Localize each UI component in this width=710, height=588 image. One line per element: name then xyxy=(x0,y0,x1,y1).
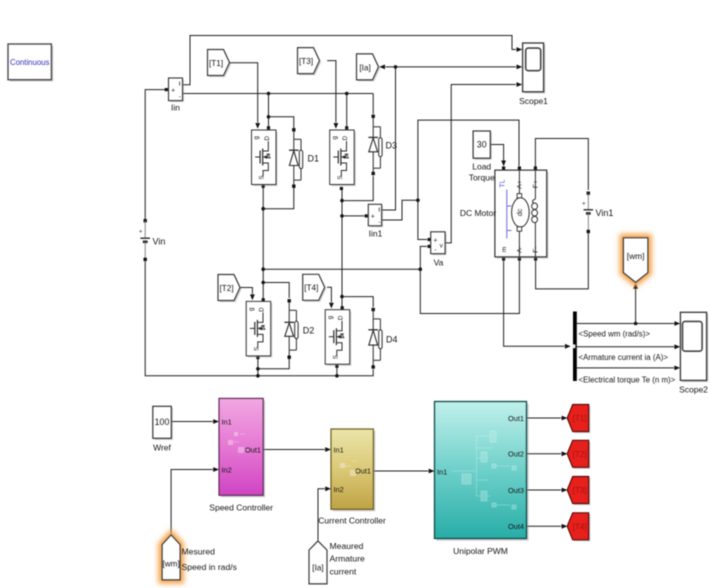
powergui block Continuous xyxy=(8,44,53,82)
svg-text:dc: dc xyxy=(515,208,524,216)
wire: [T2] to Q3 gate xyxy=(241,288,255,301)
svg-text:[wm]: [wm] xyxy=(162,559,179,568)
DC source battery Vin xyxy=(139,219,166,261)
svg-text:g: g xyxy=(331,136,338,140)
svg-text:m: m xyxy=(501,246,508,252)
red goto tag [T1] xyxy=(567,405,590,434)
svg-text:In1: In1 xyxy=(222,418,232,427)
svg-text:<Speed wm (rad/s)>: <Speed wm (rad/s)> xyxy=(579,330,651,339)
svg-text:Armature: Armature xyxy=(330,554,366,564)
subsystem Current Controller xyxy=(318,429,386,526)
svg-text:D1: D1 xyxy=(308,154,320,164)
svg-text:Scope2: Scope2 xyxy=(679,385,708,395)
red goto tag [T3] xyxy=(567,477,590,506)
svg-text:Va: Va xyxy=(434,258,444,268)
goto tag [Ia] (mirrored, receives armature current) xyxy=(357,54,381,82)
svg-text:[T3]: [T3] xyxy=(573,486,587,495)
subsystem Speed Controller xyxy=(209,398,273,512)
MOSFET Q3 xyxy=(246,301,272,357)
svg-text:A+: A+ xyxy=(517,180,524,189)
svg-text:TL: TL xyxy=(500,179,507,187)
svg-text:In2: In2 xyxy=(334,485,344,494)
current measurement Iin1 xyxy=(368,204,383,238)
from tag [Ia] (measured armature current) xyxy=(309,541,327,584)
wire: bus output 3 (torque) to Scope2 xyxy=(577,366,680,371)
svg-text:[T1]: [T1] xyxy=(573,414,587,423)
constant block 30 (load torque) xyxy=(469,131,495,183)
svg-text:In1: In1 xyxy=(437,468,447,477)
wire: Speed Controller Out1 to Current Controller In1 xyxy=(263,447,331,452)
svg-text:100: 100 xyxy=(155,417,170,427)
svg-text:D: D xyxy=(338,315,345,320)
wire: bottom return rail from Vin- to D4 bottom xyxy=(145,261,373,377)
voltage measurement Va xyxy=(431,232,447,268)
wire: lower-left leg join (Q3 source, D2 bottom) xyxy=(256,356,289,376)
from tag [wm] with highlight glow (measured speed) xyxy=(162,535,180,580)
wire: top DC rail from Iin output to Q1/Q2 drains and D1/D3 xyxy=(183,92,373,130)
wire: [T1] to Q1 gate xyxy=(230,63,261,129)
goto tag [wm] rotated down with highlight glow xyxy=(623,238,648,283)
annotation: Meaured Armature current xyxy=(330,541,366,577)
svg-text:current: current xyxy=(330,567,357,577)
diode D4 xyxy=(368,308,397,369)
svg-text:+: + xyxy=(433,238,437,245)
svg-text:D2: D2 xyxy=(303,326,315,336)
annotation: Mesured Speed in rad/s xyxy=(182,547,237,573)
svg-text:-: - xyxy=(378,219,380,226)
wire: [T3] to Q2 gate xyxy=(327,61,338,129)
wire: motor m output down to Bus Selector input xyxy=(502,257,571,348)
svg-text:[T1]: [T1] xyxy=(209,59,223,68)
svg-text:D: D xyxy=(264,135,271,140)
wire: PWM Out3 to red [T3] goto xyxy=(527,488,568,493)
diode D1 xyxy=(289,128,319,188)
DC Motor internals: TL physical port (blue) xyxy=(500,179,512,238)
wire: Load Torque constant to TL input xyxy=(490,145,506,170)
svg-text:S: S xyxy=(337,175,344,179)
svg-text:[wm]: [wm] xyxy=(627,251,645,261)
svg-text:+: + xyxy=(582,200,586,207)
svg-text:Out3: Out3 xyxy=(508,486,524,495)
wire: Wref constant to Speed Controller In1 xyxy=(172,419,220,424)
svg-text:D3: D3 xyxy=(386,141,398,151)
svg-text:Out1: Out1 xyxy=(508,414,524,423)
svg-text:Out1: Out1 xyxy=(355,467,371,476)
red goto tag [T2] xyxy=(567,440,590,469)
svg-text:S: S xyxy=(253,347,260,351)
svg-text:D4: D4 xyxy=(386,335,398,345)
wire: [Ia] from-tag up to Current Controller In2 xyxy=(318,486,331,540)
svg-text:[Ia]: [Ia] xyxy=(359,63,370,72)
wire: right leg (Q2 source to Q4 drain) with D3/D4/Iin1 joins xyxy=(340,176,373,309)
svg-text:In1: In1 xyxy=(334,446,344,455)
svg-text:[T3]: [T3] xyxy=(299,57,313,66)
svg-text:In2: In2 xyxy=(222,466,232,475)
svg-text:Vin: Vin xyxy=(153,237,166,247)
scope Scope1 xyxy=(519,43,548,106)
svg-text:[T4]: [T4] xyxy=(573,523,587,532)
DC source battery Vin1 xyxy=(582,192,613,234)
from tag [T4] xyxy=(303,274,327,302)
DC Motor internals: field winding coil xyxy=(532,170,538,257)
svg-text:Wref: Wref xyxy=(153,443,171,453)
wire: [wm] from-tag up to Speed Controller In2 xyxy=(171,467,219,534)
MOSFET Q1 xyxy=(252,130,278,186)
svg-text:g: g xyxy=(253,136,260,140)
svg-text:D: D xyxy=(342,135,349,140)
wire: Vin+ up to Iin input xyxy=(145,88,168,219)
DC Motor block xyxy=(460,170,549,259)
svg-text:Load: Load xyxy=(472,162,491,172)
MOSFET Q4 xyxy=(325,310,351,366)
wire: A- rail from left leg to motor A- with Va- tap xyxy=(263,245,521,314)
wire: Iin1 output to A+ node, motor A+ and Va+ xyxy=(382,120,521,241)
wire: left leg mid (Q1 source to Q3 drain) with D1/D2 joins xyxy=(261,185,293,302)
svg-text:Out4: Out4 xyxy=(508,522,524,531)
svg-text:Mesured: Mesured xyxy=(182,547,216,557)
svg-text:Iin1: Iin1 xyxy=(369,229,383,239)
MOSFET Q2 xyxy=(330,130,356,186)
wire: PWM Out1 to red [T1] goto xyxy=(527,416,568,421)
wire: bus output 2 (armature current) to Scope2 xyxy=(577,344,680,349)
svg-text:F-: F- xyxy=(533,246,540,252)
wire: PWM Out4 to red [T4] goto xyxy=(527,524,568,529)
svg-text:Scope1: Scope1 xyxy=(519,96,548,106)
svg-text:+: + xyxy=(139,229,143,236)
wire: [T4] to Q4 gate xyxy=(327,287,334,308)
diode D2 xyxy=(284,299,314,359)
wire: motor F+ up and over to Vin1 + xyxy=(534,139,589,191)
goto tag [T3] xyxy=(298,48,322,76)
bus selector (black bar) xyxy=(572,312,576,382)
svg-text:<Armature current ia (A)>: <Armature current ia (A)> xyxy=(579,353,669,362)
svg-text:Continuous: Continuous xyxy=(10,58,50,67)
diode D3 xyxy=(368,115,397,176)
svg-text:[Ia]: [Ia] xyxy=(312,563,323,572)
svg-text:g: g xyxy=(327,315,334,319)
wire: Iin i-output up to Scope1 input 1 xyxy=(183,36,523,85)
wire: Vin1 - down and left to motor F- xyxy=(534,233,588,289)
svg-text:Current Controller: Current Controller xyxy=(318,516,386,526)
svg-text:Out2: Out2 xyxy=(508,450,524,459)
DC Motor internals: armature with dc label xyxy=(512,170,530,257)
wire: Iin1 i-output up to [Ia] goto and Scope1 input 2 xyxy=(379,65,522,211)
svg-text:Vin1: Vin1 xyxy=(596,208,614,218)
svg-text:[T2]: [T2] xyxy=(573,450,587,459)
svg-text:DC Motor: DC Motor xyxy=(460,208,497,218)
scope Scope2 xyxy=(679,312,708,394)
current measurement Iin xyxy=(169,78,185,113)
svg-text:-: - xyxy=(179,94,181,101)
svg-text:S: S xyxy=(332,355,339,359)
svg-text:D: D xyxy=(259,307,266,312)
svg-text:Torque: Torque xyxy=(469,173,495,183)
svg-text:30: 30 xyxy=(477,140,487,150)
svg-text:+: + xyxy=(371,214,375,221)
red goto tag [T4] xyxy=(567,513,590,542)
svg-text:Iin: Iin xyxy=(171,103,180,113)
svg-text:Unipolar PWM: Unipolar PWM xyxy=(453,546,508,556)
svg-text:[T4]: [T4] xyxy=(304,284,318,293)
wire: bus output 1 (speed) to Scope2 and [wm] goto branch xyxy=(577,283,680,326)
svg-text:A-: A- xyxy=(517,246,524,253)
svg-text:Speed in rad/s: Speed in rad/s xyxy=(182,562,237,572)
svg-text:F+: F+ xyxy=(533,180,540,188)
svg-text:+: + xyxy=(171,88,175,95)
svg-text:Speed Controller: Speed Controller xyxy=(209,503,273,513)
goto tag [T1] xyxy=(208,50,232,78)
constant block 100 (Wref) xyxy=(153,406,173,452)
subsystem Unipolar PWM xyxy=(435,402,529,557)
wire: PWM Out2 to red [T2] goto xyxy=(527,451,568,456)
svg-text:[T2]: [T2] xyxy=(220,284,234,293)
DC Motor internals: rotated port labels xyxy=(501,180,540,253)
svg-text:<Electrical torque Te (n m)>: <Electrical torque Te (n m)> xyxy=(579,375,676,384)
svg-text:S: S xyxy=(259,175,266,179)
wire: Va output up to Scope1 input 3 xyxy=(445,82,522,243)
svg-text:Meaured: Meaured xyxy=(330,541,364,551)
wire: Current Controller Out1 to Unipolar PWM In1 xyxy=(374,469,435,474)
from tag [T2] xyxy=(218,275,242,303)
svg-text:g: g xyxy=(248,307,255,311)
svg-text:-: - xyxy=(434,247,436,254)
